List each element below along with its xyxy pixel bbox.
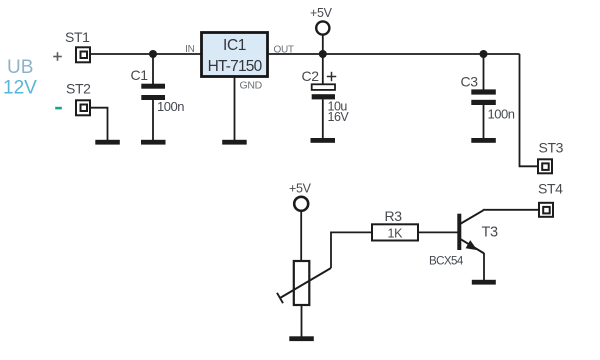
- connector ST2: [66, 81, 91, 116]
- wire trimmer bottom to ground: [301, 305, 303, 337]
- trimmer potentiometer: [277, 261, 331, 305]
- svg-text:T3: T3: [482, 225, 498, 241]
- wire IC1 GND down: [234, 77, 236, 141]
- wire IC1 OUT to right corner: [268, 53, 520, 55]
- wire R3 to base: [418, 231, 458, 233]
- svg-text:IN: IN: [185, 44, 194, 55]
- node junction C1: [149, 50, 157, 58]
- svg-text:HT-7150: HT-7150: [208, 58, 263, 75]
- svg-text:C2: C2: [302, 68, 320, 84]
- svg-text:ST3: ST3: [539, 140, 564, 156]
- svg-text:ST1: ST1: [65, 29, 90, 45]
- svg-text:+5V: +5V: [289, 182, 312, 196]
- svg-text:16V: 16V: [328, 110, 350, 124]
- svg-text:UB: UB: [7, 57, 33, 78]
- svg-text:GND: GND: [240, 80, 263, 92]
- connector ST1: [65, 29, 90, 62]
- svg-text:ST2: ST2: [66, 81, 91, 97]
- supply +5V bottom: [289, 182, 312, 262]
- node junction C2: [319, 50, 327, 58]
- ground under C1: [141, 140, 166, 145]
- svg-text:100n: 100n: [157, 99, 184, 114]
- ground under C2: [311, 138, 336, 143]
- transistor T3 BCX54: [429, 210, 498, 267]
- wire ST1 to IC1 IN: [91, 53, 201, 55]
- ground under emitter: [472, 280, 496, 285]
- wire rail corner down to ST3: [520, 54, 538, 166]
- ground under ST2: [95, 140, 120, 145]
- svg-text:BCX54: BCX54: [429, 255, 464, 268]
- wire collector to ST4: [483, 209, 539, 211]
- wire emitter to ground: [483, 253, 485, 281]
- capacitor C1: [131, 54, 185, 140]
- svg-text:R3: R3: [385, 208, 403, 224]
- regulator IC1 HT-7150: [185, 33, 294, 92]
- node junction C3: [480, 50, 488, 58]
- svg-text:12V: 12V: [3, 78, 37, 99]
- polarity minus at ST2: [55, 107, 62, 110]
- resistor R3 1K: [372, 208, 418, 241]
- connector ST3: [538, 140, 564, 174]
- wire ST2 to ground: [91, 108, 108, 140]
- svg-text:IC1: IC1: [223, 37, 246, 54]
- ground under IC1: [222, 140, 247, 145]
- connector ST4: [538, 181, 563, 217]
- supply +5V top: [310, 6, 333, 54]
- svg-text:1K: 1K: [388, 227, 404, 241]
- svg-text:C3: C3: [461, 74, 479, 90]
- svg-text:ST4: ST4: [538, 181, 563, 197]
- svg-text:C1: C1: [131, 67, 149, 83]
- capacitor C2 electrolytic: [302, 54, 350, 140]
- ground under trimmer: [289, 336, 314, 341]
- capacitor C3: [461, 54, 515, 139]
- polarity plus at ST1: [53, 52, 62, 61]
- svg-text:+5V: +5V: [310, 6, 333, 20]
- wire wiper to R3: [331, 232, 372, 268]
- ground under C3: [471, 138, 496, 143]
- svg-text:100n: 100n: [488, 107, 515, 122]
